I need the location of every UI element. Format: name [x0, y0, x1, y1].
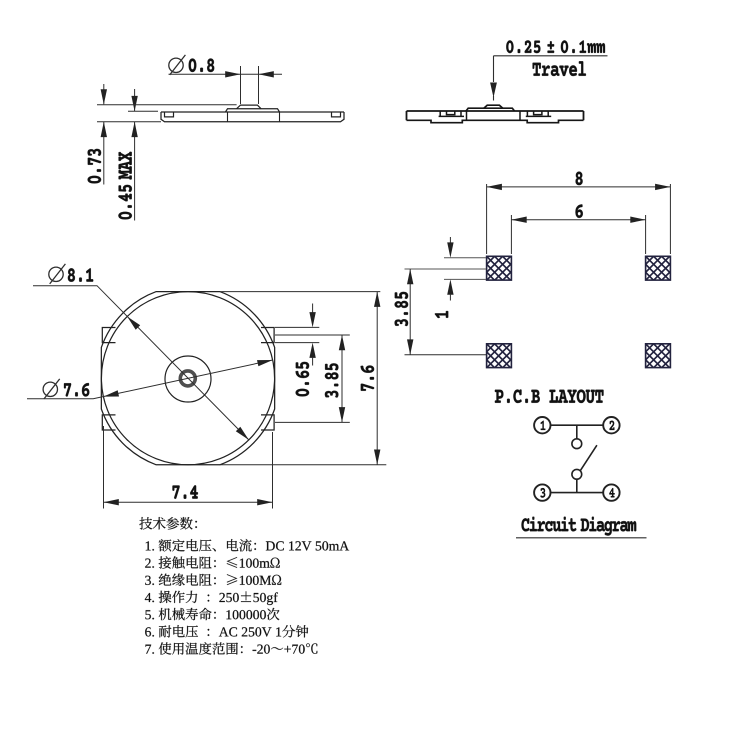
dim 8 dimension line [487, 186, 671, 188]
dim 6 extension right [645, 215, 647, 254]
side view internal seam right [279, 112, 281, 122]
pad ext line top [444, 257, 486, 259]
circuit terminal 4 [603, 484, 619, 500]
top view tab lower-left [102, 415, 115, 430]
parameter line 4 operating force [145, 591, 278, 605]
dim 3.85 PCB arrow up [407, 269, 413, 284]
PCB pad bottom-right [558, 320, 734, 368]
dim 1 line lower [449, 294, 451, 301]
section view left contact pin [439, 111, 464, 116]
dim 7.6 arrow left [103, 390, 119, 396]
section view seam left [466, 111, 468, 120]
pad ext line middle [405, 268, 487, 270]
dim 7.6 diameter symbol [43, 382, 57, 396]
dim 8 extension left [486, 184, 488, 254]
circuit terminal 2 [603, 417, 619, 433]
circuit wire stem bottom [576, 479, 578, 492]
dim 1 line upper [449, 237, 451, 244]
dim 7.6 arrow right [257, 360, 273, 366]
circuit terminal 3 [534, 484, 550, 500]
parameter line 6 withstand voltage [145, 625, 308, 637]
dim 7.4 value text [173, 485, 198, 499]
dim 0.45 MAX value text (rotated) [118, 152, 131, 220]
top view stem ring [180, 371, 195, 386]
pad ext line bottom [444, 278, 486, 280]
PCB pad top-right [558, 233, 734, 281]
dim 0.45 dimension line upper [134, 89, 136, 111]
dim 7.6 leader and dimension line [27, 360, 273, 399]
dim 0.73 value text (rotated) [88, 149, 102, 184]
top view tab lower-right [261, 415, 274, 430]
travel leader line [493, 56, 495, 101]
dim 0.65 line lower [312, 357, 314, 366]
dim 3.85 arrow down [339, 407, 345, 422]
dim 7.6 value text [64, 383, 89, 397]
travel leader arrow [490, 83, 497, 98]
dim 0.8 arrow right [259, 71, 274, 77]
dim 3.85 PCB line [409, 269, 411, 355]
side view internal seam left [227, 112, 229, 122]
PCB layout title [495, 390, 604, 404]
dim 0.73 dimension line upper [103, 84, 105, 104]
parameter line 5 mechanical life [145, 608, 279, 620]
dim 0.45 arrow up [131, 122, 137, 137]
dim 7.6 vertical arrow up [374, 292, 380, 307]
dim 6 arrow left [511, 217, 526, 223]
ext line tab top [275, 326, 319, 328]
section view body outline [407, 111, 584, 120]
top view center boss circle [165, 356, 211, 402]
extension line top flat to 7.6 dim [220, 291, 380, 293]
dim 7.4 extension line left [103, 426, 105, 509]
parameter line 1 rated voltage/current [146, 539, 349, 552]
ext line lower tab center [275, 421, 350, 423]
dim 1 value text (rotated) [435, 311, 448, 318]
dim 8.1 arrow upper-left [127, 317, 140, 330]
circuit diagram title [522, 517, 637, 536]
extension line body bottom [97, 121, 161, 123]
top view body circle [101, 292, 274, 465]
dim 0.73 arrow up [101, 122, 107, 137]
dim 8.1 diameter symbol [49, 267, 63, 281]
dim 6 arrow right [630, 217, 645, 223]
circuit diagram title underline [516, 537, 647, 539]
PCB pad top-left [399, 233, 575, 281]
dim 8 arrow left [487, 184, 502, 190]
travel label text [533, 61, 586, 76]
dim 0.65 arrow up [309, 343, 315, 358]
dim 0.45 arrow down [131, 96, 137, 111]
dim 0.65 arrow down [309, 312, 315, 327]
PCB pad bottom-left [399, 320, 575, 368]
dim 8.1 leader and dimension line [33, 286, 249, 440]
dim 6 value text [576, 204, 583, 218]
extension line button top [97, 104, 237, 106]
side view button plunger [237, 105, 261, 109]
dim 7.4 arrow right [257, 499, 272, 505]
side view right mounting tab [332, 112, 341, 117]
extension line body top [128, 110, 158, 112]
circuit switch arm [580, 445, 597, 471]
pad ext line lower pad middle [405, 354, 487, 356]
dim 8 extension right [669, 184, 671, 254]
dim 0.8 value text [189, 59, 215, 73]
dim 7.6 vertical line [376, 292, 378, 465]
dim 7.4 dimension line [104, 501, 273, 503]
ext line tab center [275, 334, 350, 336]
ext line tab bottom [275, 342, 319, 344]
dim 0.45 dimension line lower [134, 122, 136, 221]
dim 3.85 line [341, 335, 343, 422]
dim 0.65 value text (rotated) [296, 362, 310, 397]
dim 0.8 extension line left [240, 66, 242, 104]
dim 0.73 dimension line lower [103, 122, 105, 185]
parameter line 2 contact resistance [145, 556, 280, 568]
travel value text 0.25±0.1mm [506, 40, 605, 53]
top view tab upper-left [102, 328, 115, 343]
dim 0.73 arrow down [101, 89, 107, 104]
dim 3.85 PCB value text (rotated) [395, 292, 409, 326]
dim 7.4 arrow left [104, 499, 119, 505]
side view body outline (top-left view) [161, 112, 344, 122]
dim 0.8 dimension line [169, 73, 283, 75]
dim 0.8 diameter symbol [169, 58, 183, 72]
dim 6 extension left [510, 215, 512, 254]
section view bottom with feet [407, 120, 584, 122]
circuit moving contact [572, 469, 582, 479]
travel label underline [494, 55, 608, 57]
section view button pedestal [466, 108, 515, 111]
dim 6 dimension line [511, 219, 645, 221]
section view button plunger [484, 105, 503, 108]
circuit wire stem top [576, 425, 578, 439]
dim 8.1 value text [68, 268, 93, 282]
dim 0.8 extension line right [258, 66, 260, 104]
dim 8.1 arrow lower-right [236, 427, 249, 440]
side view left mounting tab [165, 112, 174, 117]
parameter line 7 operating temperature [146, 642, 318, 655]
circuit wire terminals 1-2 [551, 424, 604, 426]
section view seam right [519, 111, 521, 120]
parameters heading 技术参数： [139, 517, 197, 529]
extension line bottom flat to 7.6 dim [220, 464, 386, 466]
dim 7.4 extension line right [272, 432, 274, 509]
dim 0.65 line upper [312, 304, 314, 314]
dim 1 arrow down [447, 242, 453, 257]
top view cover outline with four flats [101, 292, 274, 465]
circuit wire terminals 3-4 [551, 492, 604, 494]
dim 7.6 vertical value text (rotated) [361, 366, 375, 391]
dim 1 arrow up [447, 279, 453, 294]
dim 0.8 arrow left [225, 71, 240, 77]
dim 8 value text [576, 172, 583, 186]
side view button pedestal [226, 109, 280, 112]
dim 8 arrow right [655, 184, 670, 190]
dim 3.85 value text (rotated) [325, 363, 339, 397]
circuit fixed contact [572, 439, 582, 449]
dim 3.85 arrow up [339, 335, 345, 350]
section view right contact pin [526, 111, 551, 116]
circuit terminal 1 [534, 417, 550, 433]
parameter line 3 insulation resistance [145, 574, 281, 586]
top view tab upper-right [261, 328, 274, 343]
dim 3.85 PCB arrow down [407, 339, 413, 354]
dim 7.6 vertical arrow down [374, 450, 380, 465]
